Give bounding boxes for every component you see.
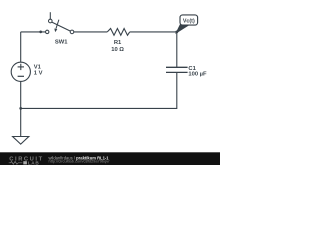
CircuitLab logo square <box>23 161 27 164</box>
CircuitLab logo zigzag <box>9 161 23 164</box>
svg-text:100 µF: 100 µF <box>188 72 207 78</box>
wire: top-left horizontal from corner to switch <box>21 31 46 33</box>
ground wire <box>20 108 22 136</box>
capacitor C1 plates <box>166 66 188 68</box>
wire: resistor to top-right corner <box>130 32 177 67</box>
footer bar <box>0 152 220 165</box>
voltmeter flag Vc(t) tail <box>176 24 188 33</box>
svg-text:R1: R1 <box>114 40 122 46</box>
ground symbol <box>13 137 29 145</box>
wire: capacitor down to bottom-right corner and bottom wire <box>21 72 177 108</box>
svg-text:SW1: SW1 <box>55 40 68 46</box>
svg-text:1 V: 1 V <box>34 71 43 77</box>
plus sign <box>18 66 24 68</box>
minus sign <box>18 75 24 77</box>
svg-text:10 Ω: 10 Ω <box>111 47 124 53</box>
svg-text:http://circuitlab.com/c8fd29a7: http://circuitlab.com/c8fd29a79bqv/ <box>49 159 111 164</box>
svg-text:V1: V1 <box>34 65 42 71</box>
svg-text:Vc(t): Vc(t) <box>183 18 195 24</box>
resistor R1 zigzag <box>107 29 129 36</box>
switch SW1 <box>46 12 74 34</box>
wire: V1 bottom to bottom rail <box>20 81 22 108</box>
wire: left vertical down to V1 top <box>20 32 22 63</box>
node dot bottom junction <box>19 107 22 110</box>
node dot at switch terminal <box>39 31 42 34</box>
wire: switch to resistor <box>74 31 108 33</box>
voltmeter flag Vc(t) box <box>180 15 198 25</box>
svg-text:LAB: LAB <box>28 160 40 165</box>
node dot top-right <box>175 31 178 34</box>
voltage source V1 <box>11 62 30 81</box>
